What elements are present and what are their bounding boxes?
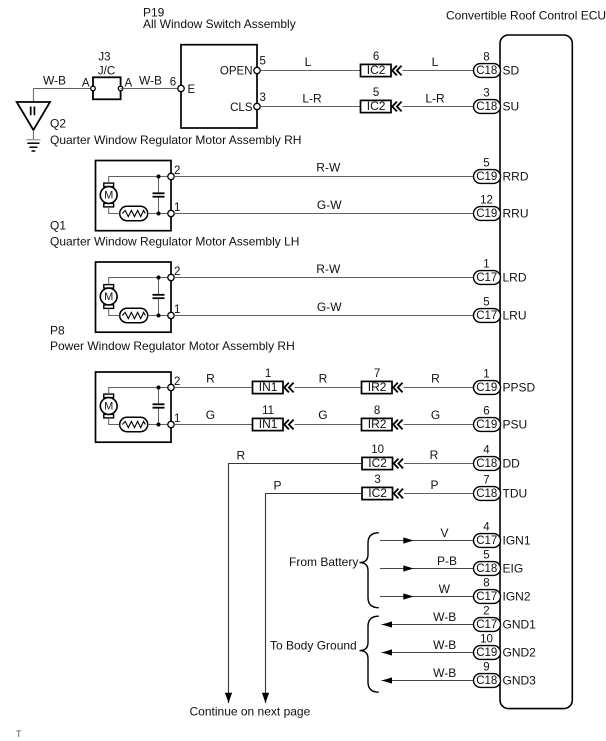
svg-text:5: 5 <box>260 56 266 68</box>
svg-text:LRD: LRD <box>503 271 527 285</box>
connector IN1-PSU pin 11 box <box>253 418 284 430</box>
svg-text:V: V <box>440 526 448 540</box>
svg-text:IR2: IR2 <box>368 417 387 431</box>
Convertible Roof Control ECU U1 outline <box>500 35 572 709</box>
wire W-B J/C to switch pin E <box>121 88 181 90</box>
wire W-B ground to J/C <box>33 88 93 90</box>
svg-text:W-B: W-B <box>139 73 162 87</box>
motor Q1 <box>104 285 114 289</box>
wire L from IC2 to ECU SD <box>403 70 474 72</box>
pin 2 of Q2 <box>168 173 174 179</box>
svg-text:L: L <box>432 55 439 69</box>
svg-text:M: M <box>104 401 113 413</box>
wire motor top to pin 2 <box>109 177 171 184</box>
svg-text:T: T <box>16 729 22 739</box>
ECU connector pin C19 pin 1 (PPSD) <box>474 381 501 395</box>
svg-text:IC2: IC2 <box>367 99 386 113</box>
svg-text:M: M <box>104 291 113 303</box>
brace From Battery <box>360 533 379 608</box>
junction bottom P8 <box>157 423 161 427</box>
ECU connector pin C17 pin 8 (IGN2) <box>474 590 501 604</box>
ECU connector pin C17 pin 4 (IGN1) <box>474 534 501 548</box>
chevron arrows at IN1-PPSD <box>284 383 289 393</box>
junction connector J3 J/C <box>93 77 121 99</box>
ECU connector pin C17 pin 1 (LRD) <box>474 271 501 285</box>
svg-text:J/C: J/C <box>98 66 115 78</box>
svg-text:W: W <box>439 582 451 596</box>
wire L from OPEN to IC2 <box>260 70 360 72</box>
svg-text:3: 3 <box>483 87 489 99</box>
svg-text:Q2: Q2 <box>50 117 66 131</box>
connector IC2-DD pin 10 box <box>362 457 393 469</box>
connector IN1-PPSD pin 1 box <box>253 381 284 393</box>
ECU connector pin C19 pin 10 (GND2) <box>474 646 501 660</box>
svg-text:5: 5 <box>373 87 379 99</box>
connector IR2-PSU pin 8 box <box>362 418 393 430</box>
svg-text:1: 1 <box>174 413 180 425</box>
svg-text:R-W: R-W <box>316 161 341 175</box>
wire motor top to pin 2 <box>109 278 171 285</box>
wire P IC2 to ECU TDU <box>404 493 474 495</box>
svg-text:IR2: IR2 <box>368 380 387 394</box>
svg-text:P: P <box>430 478 438 492</box>
connector IC2-SU pin 5 box <box>361 100 392 112</box>
svg-text:C17: C17 <box>476 310 497 322</box>
ground symbol Q2 (shield ground II) <box>17 102 50 130</box>
svg-text:6: 6 <box>373 51 379 63</box>
arrow to next page (R) <box>225 693 232 703</box>
chevron arrows at IC2-SD <box>392 66 397 76</box>
svg-text:C17: C17 <box>476 591 497 603</box>
svg-text:C19: C19 <box>476 171 497 183</box>
svg-text:C17: C17 <box>476 619 497 631</box>
wire R-W motor Q1 pin2 to ECU LRD <box>174 277 473 279</box>
wire L-R from IC2 to ECU SU <box>403 106 474 108</box>
capacitor Q1 <box>158 278 160 295</box>
junction top Q2 <box>157 175 161 179</box>
ECU connector pin C19 pin 12 (RRU) <box>474 207 501 221</box>
svg-text:Continue on next page: Continue on next page <box>190 705 311 719</box>
svg-text:5: 5 <box>483 296 489 308</box>
svg-text:IN1: IN1 <box>259 417 278 431</box>
svg-text:LRU: LRU <box>503 309 527 323</box>
wire V from battery to ECU IGN1 <box>380 540 474 542</box>
arrow toward ECU (EIG) <box>403 565 413 571</box>
wire P-B from battery to ECU EIG <box>380 568 474 570</box>
arrow toward body ground (GND2) <box>382 649 392 655</box>
svg-text:3: 3 <box>260 92 266 104</box>
svg-text:R: R <box>430 448 439 462</box>
svg-text:R-W: R-W <box>316 262 341 276</box>
chevron arrows at IR2-PSU <box>393 420 398 430</box>
arrow toward body ground (GND3) <box>382 677 392 683</box>
svg-text:OPEN: OPEN <box>220 66 253 78</box>
pin E of P19 <box>178 85 184 91</box>
pin 1 of Q1 <box>168 312 174 318</box>
circuit breaker Q1 <box>120 308 148 322</box>
svg-text:P: P <box>273 478 281 492</box>
pin CLS (3) of P19 <box>254 103 260 109</box>
svg-text:IC2: IC2 <box>368 486 387 500</box>
wire R motor P8 pin2 to IN1 <box>174 387 252 389</box>
svg-text:A: A <box>82 78 90 90</box>
wire R IR2 to ECU PPSD <box>404 387 474 389</box>
wire P next page to IC2 (corner) <box>266 494 363 704</box>
svg-text:3: 3 <box>374 474 380 486</box>
wire R next page to IC2 (corner) <box>229 464 363 704</box>
svg-text:TDU: TDU <box>503 487 528 501</box>
svg-text:GND3: GND3 <box>503 674 537 688</box>
ECU connector pin C17 pin 5 (LRU) <box>474 309 501 323</box>
svg-text:11: 11 <box>262 405 274 417</box>
svg-text:2: 2 <box>174 376 180 388</box>
svg-text:GND2: GND2 <box>503 646 537 660</box>
svg-text:M: M <box>104 190 113 202</box>
svg-text:W-B: W-B <box>43 73 66 87</box>
motor P8 <box>104 394 114 398</box>
wire G-W motor Q1 pin1 to ECU LRU <box>174 315 473 317</box>
arrow toward body ground (GND1) <box>382 621 392 627</box>
ground stem and hatch <box>32 130 34 140</box>
svg-text:6: 6 <box>483 405 489 417</box>
svg-text:R: R <box>206 372 215 386</box>
svg-text:8: 8 <box>483 577 489 589</box>
wire G IN1 to IR2 <box>295 424 362 426</box>
svg-text:EIG: EIG <box>503 562 524 576</box>
ECU connector pin C19 pin 6 (PSU) <box>474 418 501 432</box>
svg-text:4: 4 <box>483 521 490 533</box>
svg-text:R: R <box>319 372 328 386</box>
svg-text:W-B: W-B <box>433 638 456 652</box>
arrow toward ECU (IGN1) <box>403 537 413 543</box>
svg-text:PPSD: PPSD <box>503 381 536 395</box>
svg-text:Power Window Regulator Motor A: Power Window Regulator Motor Assembly RH <box>50 339 295 353</box>
svg-text:7: 7 <box>483 474 489 486</box>
svg-text:RRU: RRU <box>503 207 529 221</box>
ECU connector pin C19 pin 5 (RRD) <box>474 170 501 184</box>
svg-text:To Body Ground: To Body Ground <box>270 639 357 653</box>
pin 1 of Q2 <box>168 210 174 216</box>
pin 2 of P8 <box>168 384 174 390</box>
svg-text:C19: C19 <box>476 208 497 220</box>
svg-text:SU: SU <box>503 100 520 114</box>
svg-text:L-R: L-R <box>425 91 445 105</box>
wire G IR2 to ECU PSU <box>404 424 474 426</box>
svg-text:10: 10 <box>480 633 493 645</box>
motor assembly Q2 box <box>96 161 172 231</box>
capacitor P8 <box>158 388 160 405</box>
wire R-W motor Q2 pin2 to ECU RRD <box>174 176 473 178</box>
svg-text:1: 1 <box>483 258 489 270</box>
svg-text:1: 1 <box>483 368 489 380</box>
svg-text:All Window Switch Assembly: All Window Switch Assembly <box>143 17 296 31</box>
svg-text:C19: C19 <box>476 647 497 659</box>
ECU connector pin C18 pin 5 (EIG) <box>474 562 501 576</box>
svg-text:C18: C18 <box>476 563 497 575</box>
svg-text:CLS: CLS <box>230 102 253 114</box>
svg-text:2: 2 <box>174 165 180 177</box>
svg-text:R: R <box>236 448 245 462</box>
ECU connector pin C18 pin 4 (DD) <box>474 457 501 471</box>
svg-text:IC2: IC2 <box>367 63 386 77</box>
circuit breaker P8 <box>120 417 148 431</box>
wire breaker to pin 1 <box>148 213 171 215</box>
junction bottom Q1 <box>157 314 161 318</box>
svg-text:2: 2 <box>483 605 489 617</box>
chevron arrows at IC2-TDU <box>394 489 399 499</box>
svg-text:G: G <box>206 408 215 422</box>
ECU connector pin C18 pin 3 (SU) <box>474 100 501 114</box>
wire breaker to pin 1 <box>148 424 171 426</box>
ECU connector pin C18 pin 8 (SD) <box>474 64 501 78</box>
svg-text:2: 2 <box>174 266 180 278</box>
svg-text:P-B: P-B <box>437 554 457 568</box>
svg-text:W-B: W-B <box>433 610 456 624</box>
svg-text:From Battery: From Battery <box>289 555 358 569</box>
wire G-W motor Q2 pin1 to ECU RRU <box>174 213 473 215</box>
wire motor bottom to breaker <box>109 418 120 425</box>
svg-text:10: 10 <box>371 444 384 456</box>
svg-text:5: 5 <box>483 157 489 169</box>
svg-text:L: L <box>305 55 312 69</box>
svg-text:8: 8 <box>374 405 380 417</box>
motor assembly P8 box <box>96 372 172 442</box>
connector IC2-TDU pin 3 box <box>362 487 393 499</box>
svg-text:SD: SD <box>503 64 520 78</box>
wire R IC2 to ECU DD <box>404 463 474 465</box>
ECU connector pin C17 pin 2 (GND1) <box>474 618 501 632</box>
svg-text:C18: C18 <box>476 675 497 687</box>
chevron arrows at IC2-SU <box>392 102 397 112</box>
svg-text:G: G <box>318 408 327 422</box>
wire L-R from CLS to IC2 <box>260 106 360 108</box>
wire breaker to pin 1 <box>148 315 171 317</box>
svg-text:E: E <box>188 84 196 96</box>
svg-text:W-B: W-B <box>433 666 456 680</box>
wire motor bottom to breaker <box>109 308 120 315</box>
svg-text:J3: J3 <box>98 52 110 64</box>
ECU connector pin C18 pin 9 (GND3) <box>474 674 501 688</box>
svg-text:C17: C17 <box>476 272 497 284</box>
connector IC2-SD pin 6 box <box>361 64 392 76</box>
arrow to next page (P) <box>262 693 269 703</box>
svg-text:1: 1 <box>265 368 271 380</box>
svg-text:C18: C18 <box>476 101 497 113</box>
junction top Q1 <box>157 276 161 280</box>
wire W from battery to ECU IGN2 <box>380 596 474 598</box>
svg-text:P8: P8 <box>50 324 65 338</box>
motor Q2 <box>104 183 114 187</box>
circuit breaker Q2 <box>120 206 148 220</box>
svg-text:1: 1 <box>174 202 180 214</box>
svg-text:C18: C18 <box>476 65 497 77</box>
svg-text:5: 5 <box>483 549 489 561</box>
motor assembly Q1 box <box>96 262 172 332</box>
svg-text:Q1: Q1 <box>50 219 66 233</box>
connector IR2-PPSD pin 7 box <box>362 381 393 393</box>
pin 2 of Q1 <box>168 274 174 280</box>
wire W-B ECU GND1 to body ground <box>382 624 474 626</box>
pin 1 of P8 <box>168 421 174 427</box>
svg-text:RRD: RRD <box>503 170 529 184</box>
pin OPEN (5) of P19 <box>254 67 260 73</box>
svg-text:IGN2: IGN2 <box>503 590 531 604</box>
svg-text:Quarter Window Regulator Motor: Quarter Window Regulator Motor Assembly … <box>50 133 301 147</box>
svg-text:A: A <box>125 78 133 90</box>
svg-text:Quarter Window Regulator Motor: Quarter Window Regulator Motor Assembly … <box>50 235 299 249</box>
svg-text:IGN1: IGN1 <box>503 534 531 548</box>
capacitor Q2 <box>158 177 160 194</box>
svg-text:6: 6 <box>170 77 176 89</box>
svg-text:G-W: G-W <box>317 198 342 212</box>
wire R IN1 to IR2 <box>295 387 362 389</box>
wire W-B ECU GND3 to body ground <box>382 680 474 682</box>
svg-text:8: 8 <box>483 51 489 63</box>
svg-text:IN1: IN1 <box>259 380 278 394</box>
svg-text:12: 12 <box>480 194 493 206</box>
svg-text:GND1: GND1 <box>503 618 537 632</box>
junction bottom Q2 <box>157 212 161 216</box>
junction top P8 <box>157 386 161 390</box>
wire motor bottom to breaker <box>109 207 120 214</box>
chevron arrows at IC2-DD <box>394 459 399 469</box>
svg-text:IC2: IC2 <box>368 456 387 470</box>
arrow toward ECU (IGN2) <box>403 593 413 599</box>
svg-text:R: R <box>431 372 440 386</box>
pin A left of J3 <box>91 86 96 91</box>
chevron arrows at IN1-PSU <box>284 420 289 430</box>
pin A right of J3 <box>118 86 123 91</box>
wire W-B ECU GND2 to body ground <box>382 652 474 654</box>
svg-text:C18: C18 <box>476 488 497 500</box>
all window switch assembly P19 box <box>181 45 257 128</box>
svg-text:DD: DD <box>503 457 521 471</box>
svg-text:7: 7 <box>374 368 380 380</box>
svg-text:G-W: G-W <box>317 300 342 314</box>
svg-text:C19: C19 <box>476 419 497 431</box>
svg-text:9: 9 <box>483 661 489 673</box>
svg-text:4: 4 <box>483 444 490 456</box>
svg-text:C18: C18 <box>476 458 497 470</box>
svg-text:L-R: L-R <box>302 91 322 105</box>
chevron arrows at IR2-PPSD <box>393 383 398 393</box>
svg-text:C19: C19 <box>476 382 497 394</box>
wire motor top to pin 2 <box>109 388 171 395</box>
svg-text:1: 1 <box>174 304 180 316</box>
wire G motor P8 pin1 to IN1 <box>174 424 252 426</box>
svg-text:C17: C17 <box>476 535 497 547</box>
ECU connector pin C18 pin 7 (TDU) <box>474 487 501 501</box>
svg-text:PSU: PSU <box>503 418 528 432</box>
svg-text:Convertible Roof Control ECU: Convertible Roof Control ECU <box>446 9 606 23</box>
svg-text:G: G <box>431 408 440 422</box>
brace To Body Ground <box>360 616 379 692</box>
